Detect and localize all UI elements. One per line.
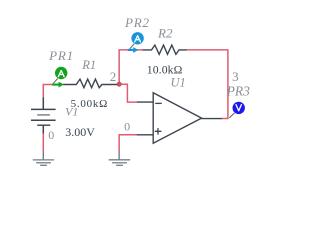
svg-text:U1: U1 — [171, 76, 186, 90]
svg-text:R2: R2 — [157, 25, 173, 40]
wire junction to op-amp inverting input — [119, 84, 137, 102]
label PR2 — [124, 15, 150, 30]
label R1 — [81, 58, 96, 72]
node 2 junction dot — [117, 82, 122, 87]
wire R2 right to output node 3 — [186, 50, 228, 119]
wire node 2 junction up to feedback branch — [119, 50, 143, 84]
node 3 — [232, 69, 239, 84]
node 0 (battery ground) — [48, 128, 54, 142]
svg-text:0: 0 — [124, 120, 130, 134]
value 5.00kΩ — [71, 98, 108, 110]
svg-text:0: 0 — [48, 128, 54, 142]
node 0 (op-amp ground) — [124, 120, 130, 134]
value 10.0kΩ — [147, 64, 183, 77]
probe PR1 (current) — [52, 67, 67, 88]
resistor R2 — [143, 45, 187, 54]
ground (op-amp non-inverting input) — [109, 151, 131, 166]
svg-text:3.00V: 3.00V — [65, 125, 95, 139]
svg-text:PR3: PR3 — [226, 84, 250, 99]
wire battery top to R1 input — [43, 85, 52, 98]
label U1 — [171, 76, 186, 90]
wire battery bottom to ground — [42, 133, 44, 151]
svg-text:3: 3 — [232, 69, 239, 84]
svg-text:R1: R1 — [81, 58, 96, 72]
probe PR2 (current) — [128, 32, 144, 53]
wire op-amp non-inverting input to ground — [119, 135, 137, 151]
svg-text:V1: V1 — [65, 105, 78, 119]
svg-text:PR2: PR2 — [124, 15, 150, 30]
resistor R1 — [63, 79, 117, 88]
label PR3 — [226, 84, 250, 99]
label V1 — [65, 105, 78, 119]
op-amp U1 — [137, 93, 222, 144]
svg-text:PR1: PR1 — [48, 48, 74, 63]
probe PR3 (voltage) — [229, 102, 245, 118]
node 2 — [110, 69, 117, 84]
label PR1 — [48, 48, 74, 63]
value 3.00V — [65, 125, 95, 139]
svg-text:2: 2 — [110, 69, 117, 84]
battery V1 — [31, 97, 56, 133]
label R2 — [157, 25, 173, 40]
ground (battery) — [33, 151, 55, 165]
